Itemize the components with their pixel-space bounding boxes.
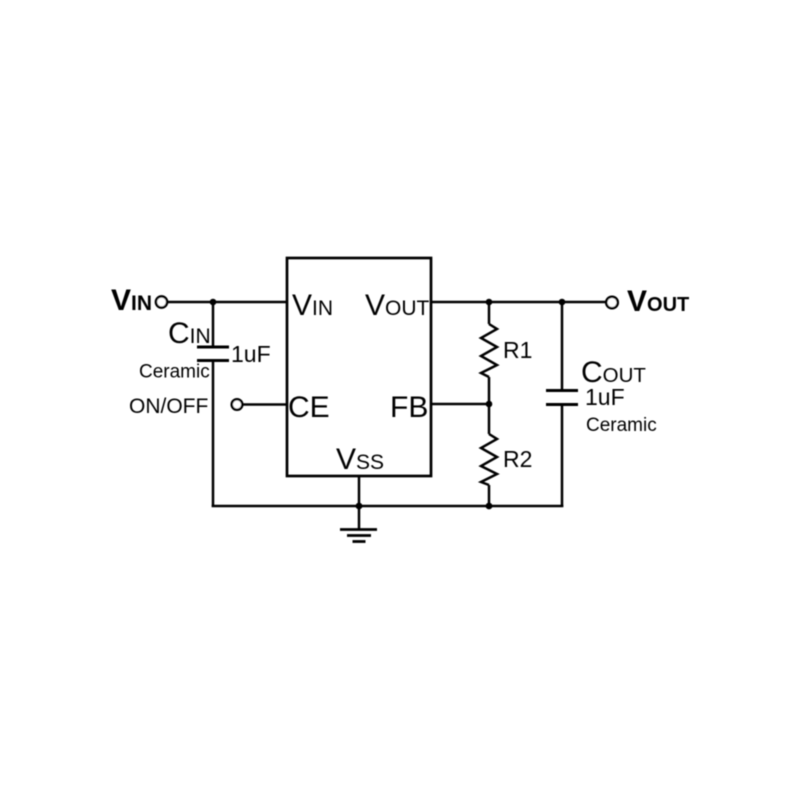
svg-text:ON/OFF: ON/OFF [129,395,208,418]
svg-text:R1: R1 [503,337,532,363]
svg-text:R2: R2 [503,446,532,472]
svg-text:1uF: 1uF [231,341,271,367]
svg-text:1uF: 1uF [585,384,625,410]
svg-text:Ceramic: Ceramic [586,415,657,436]
svg-text:FB: FB [390,391,428,424]
svg-text:CE: CE [288,391,330,424]
svg-text:Ceramic: Ceramic [139,362,210,383]
